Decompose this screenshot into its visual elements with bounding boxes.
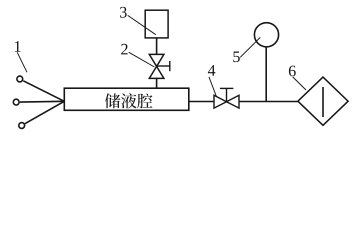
- label 5: [233, 52, 239, 63]
- box component 3: [145, 10, 168, 38]
- leader line from label 3 into box 3: [128, 15, 156, 34]
- valve 4 body (right triangle): [227, 95, 240, 108]
- filter component 6 (diamond): [298, 77, 348, 125]
- filter 6 inner vertical element: [322, 87, 324, 117]
- tank label text 储液腔: [105, 93, 153, 108]
- valve 2 body (upper triangle): [149, 54, 164, 66]
- label 3: [120, 7, 127, 18]
- port circle 2 (middle inlet): [13, 99, 19, 105]
- valve 2 stem: [157, 65, 170, 67]
- valve 2 handle bar: [169, 61, 171, 71]
- label 2: [121, 44, 127, 55]
- tank (reservoir) rectangle: [64, 88, 189, 110]
- port circle 3 (bottom inlet): [19, 123, 25, 129]
- wire from bottom port to tank inlet node: [25, 101, 64, 123]
- leader line from label 4 to valve 4: [209, 77, 216, 96]
- wire from junction up to gauge 5: [265, 47, 267, 101]
- port circle 1 (top inlet): [17, 76, 23, 82]
- leader line from label 1: [17, 52, 27, 72]
- leader line from label 2 to valve 2: [129, 52, 155, 67]
- valve 4 body (left triangle): [214, 95, 227, 108]
- main wire from valve 4 to filter 6, through gauge junction: [239, 101, 298, 103]
- main wire from tank right edge to valve 4: [189, 101, 214, 103]
- leader line from label 5 into gauge circle: [240, 37, 260, 57]
- valve 4 stem: [226, 88, 228, 101]
- wire from tank top to valve 2: [156, 78, 158, 88]
- gauge 5 circle: [254, 23, 278, 47]
- wire from middle port to tank inlet node: [20, 100, 64, 103]
- leader line from label 6 to filter edge: [293, 77, 306, 90]
- wire from valve 2 to box 3: [156, 38, 158, 55]
- label 4: [208, 65, 215, 76]
- label 1: [15, 41, 21, 52]
- label 6: [289, 66, 296, 77]
- valve 2 body (lower triangle): [149, 66, 164, 78]
- wire from top port to tank inlet node: [23, 81, 64, 102]
- valve 4 handle bar: [220, 87, 234, 89]
